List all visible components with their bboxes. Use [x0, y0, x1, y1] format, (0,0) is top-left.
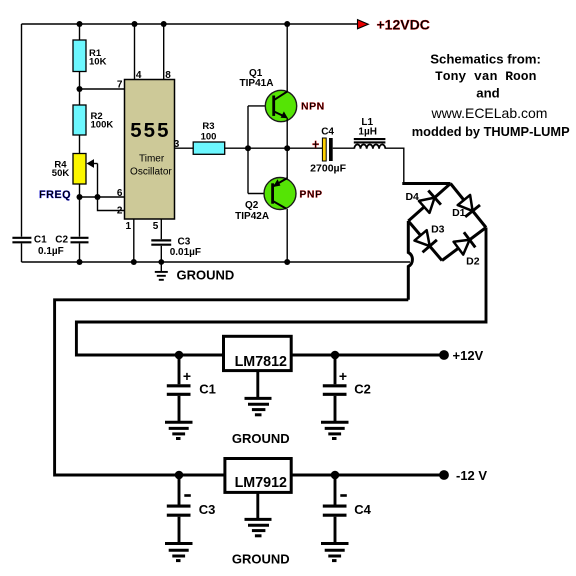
svg-text:Q1: Q1: [249, 68, 263, 79]
bridge top wire: [402, 182, 450, 185]
svg-text:C2: C2: [55, 235, 68, 246]
svg-text:100K: 100K: [91, 120, 114, 131]
svg-text:Q2: Q2: [245, 200, 259, 211]
svg-text:100: 100: [201, 132, 217, 143]
wire wiper to node: [97, 164, 99, 198]
svg-text:and: and: [476, 85, 499, 100]
power arrow +12VDC: [358, 20, 369, 29]
node C4 on -12V rail: [331, 471, 340, 480]
svg-text:D1: D1: [452, 207, 466, 219]
capacitor C4 (power): [323, 475, 347, 542]
svg-text:Oscillator: Oscillator: [130, 167, 172, 178]
bridge edge D4 (left to top): [408, 184, 450, 222]
svg-text:R3: R3: [202, 121, 214, 132]
resistor R2: [73, 105, 86, 135]
wire R4 to C2: [79, 184, 81, 237]
credits text block: [412, 52, 570, 139]
svg-text:TIP41A: TIP41A: [240, 78, 274, 89]
svg-text:+12V: +12V: [453, 348, 484, 363]
wire R3 to C4 (through base/emitter nodes): [225, 147, 323, 149]
terminal dot +12V: [439, 350, 449, 360]
svg-text:10K: 10K: [89, 57, 107, 68]
svg-text:8: 8: [165, 70, 171, 81]
regulator U3 LM7912: [225, 459, 291, 493]
svg-text:C1: C1: [199, 382, 216, 397]
transistor Q2 TIP42A: [264, 178, 296, 210]
node Q1 collector / top rail: [284, 21, 290, 27]
wire left vertical (C1 to ground rail): [21, 243, 23, 262]
capacitor C1: [12, 237, 31, 239]
svg-text:7: 7: [117, 79, 123, 90]
wire top +12V rail: [22, 23, 358, 25]
wire R2 to R4: [79, 135, 81, 154]
regulator U2 LM7812: [224, 336, 292, 370]
svg-text:D4: D4: [405, 191, 419, 203]
svg-text:-12 V: -12 V: [456, 468, 487, 483]
svg-text:PNP: PNP: [299, 189, 322, 201]
transistor Q1 TIP41A: [265, 90, 296, 121]
svg-text:TIP42A: TIP42A: [235, 211, 269, 222]
wire pin 7: [80, 88, 125, 90]
svg-text:www.ECELab.com: www.ECELab.com: [431, 105, 548, 121]
capacitor C3: [151, 239, 171, 241]
svg-text:4: 4: [136, 70, 142, 81]
node Q2 collector / ground rail: [284, 259, 290, 265]
svg-text:C1: C1: [34, 235, 47, 246]
svg-text:1µH: 1µH: [358, 126, 377, 137]
svg-text:+12VDC: +12VDC: [377, 17, 430, 33]
svg-text:C2: C2: [354, 382, 371, 397]
node wiper/pin6: [95, 194, 101, 200]
ground symbol LM7912: [245, 492, 272, 535]
IC U1 555 timer: [125, 80, 175, 220]
terminal dot -12V: [439, 470, 449, 480]
node pin 1 / ground rail: [131, 259, 137, 265]
svg-text:LM7812: LM7812: [235, 354, 287, 370]
node emitter column: [284, 145, 290, 151]
svg-text:6: 6: [117, 188, 123, 199]
node C2 on +12V rail: [331, 351, 340, 360]
wire Q2 collector to ground rail: [286, 209, 288, 262]
svg-text:Tony van Roon: Tony van Roon: [435, 69, 537, 84]
svg-text:+: +: [183, 368, 191, 384]
svg-text:+: +: [339, 368, 347, 384]
resistor R1: [73, 40, 86, 72]
inductor L1 1uH: [354, 139, 386, 149]
R4 wiper arrow: [87, 159, 95, 168]
wire left vertical (top rail to C1): [21, 24, 23, 237]
svg-text:GROUND: GROUND: [232, 552, 290, 567]
node C2 / ground rail: [77, 259, 83, 265]
svg-text:Timer: Timer: [139, 153, 165, 164]
node pin 4: [132, 21, 138, 27]
svg-text:1: 1: [126, 221, 132, 232]
node C3 on -12V rail: [175, 471, 184, 480]
capacitor C2: [71, 237, 89, 239]
wire Q1 collector (from top rail): [286, 24, 288, 92]
node C3 / ground rail: [158, 259, 164, 265]
wire Q2 collector (emitter node down): [286, 148, 288, 178]
bridge edge D2 (bottom to right): [442, 228, 486, 261]
capacitor C1 (power): [167, 355, 191, 421]
node R1/R2/pin7: [77, 86, 83, 92]
svg-text:C3: C3: [178, 237, 191, 248]
svg-text:LM7912: LM7912: [235, 475, 287, 491]
svg-text:Schematics from:: Schematics from:: [430, 52, 541, 67]
svg-text:50K: 50K: [52, 168, 70, 179]
svg-text:GROUND: GROUND: [232, 431, 290, 446]
capacitor C4 2700uF: [322, 138, 326, 161]
ground symbol C4: [321, 544, 349, 561]
wire R1 to R2: [79, 72, 81, 106]
bridge edge D1 (top to right): [451, 184, 487, 228]
ground symbol C3: [165, 544, 193, 561]
wire C3 to ground rail: [160, 246, 162, 262]
capacitor C2 (power): [323, 355, 347, 421]
svg-text:0.1µF: 0.1µF: [38, 246, 64, 257]
svg-text:0.01µF: 0.01µF: [170, 247, 201, 258]
svg-text:D2: D2: [466, 255, 480, 267]
wire C4 to L1: [333, 147, 354, 149]
svg-text:+: +: [312, 137, 319, 151]
node pin 8: [161, 21, 167, 27]
ground symbol C2: [321, 422, 349, 438]
node top rail / R1: [77, 21, 83, 27]
wire bridge negative output to -12V rail: [55, 300, 444, 475]
node base column: [245, 145, 251, 151]
wire bridge positive output to +12V rail: [76, 228, 486, 356]
wire Q1 base: [248, 105, 274, 107]
diode D3: [415, 230, 437, 252]
wire oscillator ground rail: [22, 261, 411, 263]
wire Q2 base: [248, 193, 273, 195]
svg-text:C3: C3: [199, 502, 216, 517]
wire pin 1: [133, 219, 135, 262]
wire pin 8: [163, 24, 165, 80]
wire L1 to bridge: [385, 148, 403, 182]
wire pin 2: [98, 197, 125, 211]
svg-text:NPN: NPN: [301, 100, 325, 112]
wire base column vertical: [247, 106, 249, 194]
bridge left corner drop with hop: [408, 221, 412, 300]
bridge edge D3 (left to bottom): [408, 221, 442, 261]
diode D2: [454, 232, 476, 254]
node FREQ: [77, 194, 83, 200]
svg-text:555: 555: [130, 119, 170, 142]
svg-text:2700µF: 2700µF: [310, 163, 346, 175]
wire top rail to R1: [79, 24, 81, 40]
wire Q1 emitter to node: [286, 118, 288, 148]
diode D4: [419, 191, 441, 213]
ground symbol LM7812: [245, 371, 272, 415]
svg-text:5: 5: [153, 221, 159, 232]
wire C2 to ground rail: [79, 243, 81, 262]
node C1 on +12V rail: [175, 351, 184, 360]
svg-text:modded by THUMP-LUMP: modded by THUMP-LUMP: [412, 124, 570, 139]
resistor R3: [193, 142, 225, 154]
capacitor C3 (power): [167, 475, 191, 542]
svg-text:C4: C4: [321, 126, 334, 137]
svg-text:GROUND: GROUND: [177, 268, 235, 283]
svg-text:C4: C4: [354, 502, 371, 517]
svg-text:2: 2: [117, 205, 123, 216]
potentiometer R4: [73, 154, 86, 185]
wire pin 5 (to C3): [160, 219, 162, 239]
svg-text:FREQ: FREQ: [39, 189, 71, 201]
wire pin 6: [80, 196, 125, 198]
wire pin 3: [175, 147, 194, 149]
wire pin 4: [134, 24, 136, 80]
svg-text:D3: D3: [431, 223, 445, 235]
ground symbol (oscillator): [160, 262, 162, 271]
diode D1: [458, 195, 480, 217]
ground symbol C1: [165, 422, 193, 438]
